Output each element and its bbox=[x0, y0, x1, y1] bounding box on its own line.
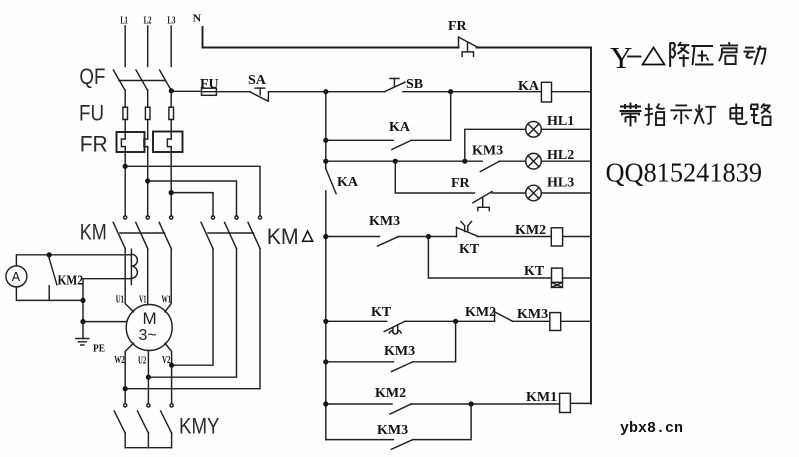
node junction row G rail bbox=[323, 359, 328, 364]
fuse FU1 bbox=[123, 107, 128, 119]
svg-text:M: M bbox=[143, 309, 157, 328]
node junction row D rail bbox=[323, 234, 328, 239]
svg-text:3~: 3~ bbox=[139, 327, 157, 344]
svg-text:SB: SB bbox=[406, 77, 423, 92]
wire row B left bbox=[326, 160, 483, 162]
wire phase2 FU to FR bbox=[147, 120, 149, 140]
node junction KT branch bbox=[426, 234, 431, 239]
motor M 3~ bbox=[126, 305, 172, 351]
svg-text:Y: Y bbox=[610, 40, 632, 75]
ammeter A bbox=[6, 266, 27, 287]
wire HL1 riser bbox=[465, 129, 526, 161]
wire PE to motor frame bbox=[83, 321, 126, 323]
wire KMY star bus bbox=[125, 447, 171, 449]
contact KA on left rail bbox=[326, 169, 359, 194]
svg-text:QF: QF bbox=[79, 64, 105, 89]
wire phase1 FR to KM bbox=[124, 147, 126, 216]
wire W2 to KM-delta pole3 bottom bbox=[125, 249, 260, 389]
wire V2 to KM-delta pole1 bottom bbox=[172, 249, 213, 366]
wire KM2 coil to rail bbox=[563, 236, 591, 238]
wire row F right bbox=[513, 320, 550, 322]
svg-text:KM2: KM2 bbox=[58, 274, 84, 289]
node junction row G riser top bbox=[453, 319, 458, 324]
wire motor W2 lead bbox=[125, 343, 133, 404]
thermal contact FR top (NC) bbox=[448, 19, 477, 56]
row C: FR / HL3 bbox=[395, 161, 591, 210]
node junction KM2 top bbox=[47, 252, 52, 257]
contactor KMY pole 3 bbox=[161, 404, 174, 448]
breaker QF pole 1 bbox=[113, 70, 125, 90]
thermal relay FR heater 2 bbox=[144, 139, 148, 152]
row A: KA self-hold branch bbox=[323, 92, 451, 150]
row B: KM3 / HL2 bbox=[323, 144, 591, 172]
svg-text:FR: FR bbox=[80, 132, 108, 157]
node junction phase2 delta feed bbox=[145, 178, 150, 183]
thermal relay FR box left bbox=[117, 132, 145, 152]
row I: KM3 parallel bottom bbox=[326, 404, 471, 449]
wire KT branch riser bbox=[428, 237, 551, 279]
node junction U2 delta bbox=[146, 375, 151, 380]
row HL1 feed bbox=[465, 114, 591, 161]
node junction PE tap bbox=[80, 319, 85, 324]
node junction ammeter bottom bbox=[80, 298, 85, 303]
wire KM3 coil to rail bbox=[561, 320, 591, 322]
svg-text:N: N bbox=[193, 13, 202, 25]
wire phase3 QF to FU bbox=[170, 90, 172, 107]
wire phase1 FU to FR bbox=[124, 120, 126, 140]
node junction left rail top bbox=[323, 89, 328, 94]
wire FU2 to SA bbox=[216, 91, 250, 93]
svg-text:FU: FU bbox=[79, 101, 104, 126]
svg-text:KM3: KM3 bbox=[377, 423, 408, 438]
wire row F mid bbox=[405, 320, 495, 322]
contactor KM-delta label triangle bbox=[303, 231, 313, 241]
wire HL2 to rail bbox=[541, 160, 591, 162]
contactor KMY pole 2 bbox=[137, 404, 150, 448]
lamp HL2 bbox=[526, 153, 542, 169]
wire phase1 to KM-delta pole3 bbox=[125, 166, 260, 216]
svg-text:KT: KT bbox=[524, 264, 545, 279]
svg-text:W1: W1 bbox=[162, 294, 172, 306]
svg-text:FR: FR bbox=[451, 176, 471, 191]
wire phase2 to KM-delta pole2 bbox=[148, 181, 237, 216]
svg-text:KM2: KM2 bbox=[375, 386, 406, 401]
hanzi dai (with) bbox=[620, 103, 642, 127]
hanzi dong (move) bbox=[744, 46, 766, 65]
wire KM pole2 to motor V1 bbox=[147, 249, 149, 305]
svg-text:FR: FR bbox=[448, 19, 468, 34]
node junction V2 delta bbox=[169, 363, 174, 368]
wire row H right bbox=[411, 403, 560, 405]
hanzi qi (start) bbox=[719, 42, 738, 64]
wire motor V2 lead bbox=[165, 343, 172, 404]
svg-text:QQ815241839: QQ815241839 bbox=[606, 157, 763, 188]
svg-text:KM2: KM2 bbox=[515, 223, 546, 238]
fuse FU3 bbox=[169, 107, 174, 119]
contactor KM pole 2 bbox=[136, 216, 150, 249]
svg-text:KM2: KM2 bbox=[465, 305, 496, 320]
wire CT secondary bottom bbox=[83, 278, 131, 280]
svg-text:KT: KT bbox=[459, 242, 480, 257]
svg-text:KM3: KM3 bbox=[384, 344, 415, 359]
node junction phase3 delta feed bbox=[169, 190, 174, 195]
svg-text:U1: U1 bbox=[116, 294, 124, 306]
breaker QF linkage bar bbox=[119, 80, 166, 82]
row D: KM3 KT KM2coil bbox=[323, 214, 591, 257]
right rail bbox=[590, 48, 592, 404]
wire row B to HL2 bbox=[499, 160, 525, 162]
wire row A right riser bbox=[411, 92, 450, 141]
wire L3 drop bbox=[170, 26, 172, 66]
left rail upper bbox=[325, 92, 327, 169]
svg-text:SA: SA bbox=[248, 73, 267, 88]
svg-text:L2: L2 bbox=[144, 15, 152, 27]
wire L1 drop bbox=[124, 26, 126, 66]
node junction KA branch top bbox=[448, 89, 453, 94]
wire motor U2 lead bbox=[147, 351, 149, 404]
hanzi ya (pressure) bbox=[692, 46, 714, 65]
hanzi dian (electric) bbox=[730, 103, 746, 124]
wire main row from phase3 tap to FU2 bbox=[171, 90, 201, 92]
ground PE symbol bbox=[76, 322, 89, 345]
wire SA to SB bbox=[269, 91, 384, 93]
svg-text:L3: L3 bbox=[167, 15, 175, 27]
current transformer bar bbox=[130, 249, 132, 284]
lamp HL3 bbox=[526, 185, 542, 201]
node junction row C riser top bbox=[393, 159, 398, 164]
wire KA coil to right rail bbox=[552, 91, 592, 93]
wire phase2 FR to KM bbox=[147, 147, 149, 216]
contactor KM-delta linkage bar bbox=[208, 232, 254, 234]
node junction phase3 to control bbox=[169, 88, 174, 93]
contactor KM-delta pole 2 bbox=[225, 216, 239, 249]
wire KT coil to rail bbox=[563, 277, 592, 279]
contactor KM pole 1 bbox=[113, 216, 127, 249]
node junction phase1 delta feed bbox=[123, 164, 128, 169]
node junction row A rail bbox=[323, 138, 328, 143]
breaker QF pole 3 bbox=[160, 70, 171, 90]
node junction row I riser top bbox=[469, 401, 474, 406]
contactor KM pole 3 bbox=[159, 216, 173, 249]
svg-text:U2: U2 bbox=[138, 355, 146, 367]
fuse FU2 bbox=[145, 107, 150, 119]
wire HL1 to rail bbox=[541, 128, 591, 130]
contactor KM-delta pole 3 bbox=[248, 216, 262, 249]
wire HL3 to rail bbox=[541, 192, 591, 194]
wire phase3 FU to FR bbox=[170, 120, 172, 140]
row E: KT coil bbox=[428, 237, 591, 288]
wire row A left bbox=[326, 139, 393, 141]
wire KM pole3 to motor W1 bbox=[165, 249, 171, 312]
wire phase2 QF to FU bbox=[147, 90, 149, 107]
hanzi zhi (indicate) bbox=[644, 103, 664, 125]
wire row G left bbox=[326, 361, 394, 363]
thermal relay FR heater 3 bbox=[167, 139, 171, 152]
svg-text:KM1: KM1 bbox=[526, 390, 557, 405]
svg-text:W2: W2 bbox=[114, 354, 125, 366]
svg-text:V1: V1 bbox=[139, 294, 147, 306]
svg-text:KM3: KM3 bbox=[369, 214, 400, 229]
contactor KM linkage bar bbox=[120, 232, 165, 234]
node junction row B rail bbox=[323, 159, 328, 164]
wire N bus FR to right rail bbox=[477, 47, 592, 49]
svg-text:FU: FU bbox=[200, 77, 219, 92]
svg-text:L1: L1 bbox=[120, 15, 128, 27]
hanzi deng (lamp) bbox=[694, 104, 716, 124]
contactor KMY pole 1 bbox=[114, 404, 127, 448]
svg-text:HL3: HL3 bbox=[547, 176, 574, 191]
pushbutton SB stop bbox=[385, 77, 424, 92]
title triangle bbox=[643, 48, 665, 65]
wire CT drop to PE node bbox=[82, 279, 84, 322]
wire row H left bbox=[326, 403, 392, 405]
wire ammeter bottom bbox=[16, 287, 83, 301]
svg-text:KA: KA bbox=[518, 79, 540, 94]
breaker QF pole 2 bbox=[136, 70, 147, 90]
POWER-SECTION bbox=[6, 13, 459, 448]
svg-text:HL1: HL1 bbox=[547, 114, 574, 129]
node junction row H rail bbox=[323, 401, 328, 406]
hanzi jiang (descend) bbox=[670, 42, 689, 67]
switch SA bbox=[248, 73, 268, 101]
svg-text:KA: KA bbox=[389, 120, 411, 135]
wire phase3 FR to KM bbox=[170, 147, 172, 216]
contact KM2 (ammeter shunt) bbox=[49, 255, 57, 301]
lamp HL1 bbox=[526, 122, 542, 138]
contactor KM-delta pole 1 bbox=[201, 216, 215, 249]
wire FR to HL3 bbox=[492, 192, 526, 194]
wire SB to KA coil bbox=[403, 91, 542, 93]
node junction row F rail bbox=[323, 319, 328, 324]
wire row I left corner bbox=[326, 439, 394, 441]
wire KM1 coil to rail corner bbox=[570, 402, 591, 404]
wire KM pole1 to motor U1 bbox=[125, 249, 133, 312]
wire phase3 to KM-delta pole1 bbox=[171, 193, 213, 216]
hanzi lu (circuit) bbox=[751, 104, 771, 126]
wire row D right bbox=[477, 236, 551, 238]
wire N drop and top bus bbox=[203, 27, 459, 48]
row G: KM3 self-hold bbox=[323, 321, 455, 371]
wire row G right riser bbox=[413, 321, 456, 362]
wire phase1 QF to FU bbox=[124, 90, 126, 107]
wire row C riser bbox=[395, 161, 474, 193]
svg-text:A: A bbox=[12, 270, 21, 284]
svg-text:ybx8.cn: ybx8.cn bbox=[620, 420, 683, 437]
svg-text:KM: KM bbox=[80, 220, 107, 245]
wire ammeter top to CT bbox=[16, 255, 131, 266]
wire row I right riser bbox=[413, 404, 471, 440]
relay coil KA bbox=[518, 79, 552, 102]
row H: KM2 KM1coil bbox=[323, 386, 591, 414]
hanzi shi (show) bbox=[670, 105, 692, 124]
svg-text:KM3: KM3 bbox=[517, 307, 548, 322]
svg-text:KA: KA bbox=[337, 175, 359, 190]
svg-text:KM3: KM3 bbox=[472, 144, 503, 159]
wire L2 drop bbox=[147, 26, 149, 66]
svg-text:KMY: KMY bbox=[179, 414, 220, 439]
node junction W2 delta bbox=[123, 386, 128, 391]
fuse FU2 control bbox=[200, 77, 219, 95]
svg-text:PE: PE bbox=[93, 343, 105, 355]
wire row D mid bbox=[399, 236, 457, 238]
svg-text:KM: KM bbox=[267, 224, 299, 249]
node junction HL1 riser bottom bbox=[462, 159, 467, 164]
thermal relay FR box right bbox=[153, 132, 183, 153]
svg-text:KT: KT bbox=[371, 305, 392, 320]
row F: KT KM2 KM3coil bbox=[323, 305, 591, 334]
thermal relay FR heater 1 bbox=[121, 139, 125, 152]
wire row D left bbox=[326, 236, 380, 238]
wire U2 to KM-delta pole2 bottom bbox=[148, 249, 236, 378]
wire row F left bbox=[326, 320, 387, 322]
left rail lower bbox=[325, 191, 327, 440]
current transformer winding bumps bbox=[131, 254, 137, 278]
